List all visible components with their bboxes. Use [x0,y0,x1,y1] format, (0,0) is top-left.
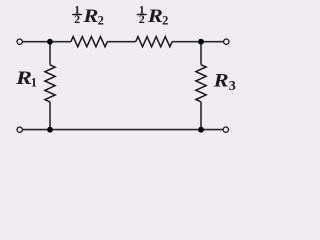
node dot bottom-right junction [198,127,204,133]
svg-text:2: 2 [98,13,104,27]
wire right shunt lower [200,102,202,130]
svg-text:2: 2 [162,13,168,27]
terminal bottom-right (open) [223,127,228,132]
svg-text:3: 3 [229,79,236,94]
svg-text:1: 1 [31,75,37,89]
svg-text:R: R [147,6,163,27]
resistor 1/2 R2 (right, series top) [136,37,172,47]
wire bottom rail [23,129,223,131]
label 1/2 R2 (right) : fraction one-half [137,3,169,28]
wire top rail middle segment [107,41,135,43]
terminal top-left (open) [17,39,22,44]
svg-text:2: 2 [74,12,80,26]
svg-text:R: R [15,68,32,89]
node dot bottom-left junction [47,127,53,133]
node dot top-right junction [198,39,204,45]
resistor R3 (right shunt) [196,65,206,102]
wire left shunt lower [49,102,51,130]
label R3 [213,70,236,94]
node dot top-left junction [47,39,53,45]
resistor 1/2 R2 (left, series top) [71,37,107,47]
svg-text:R: R [213,70,229,91]
svg-text:2: 2 [139,12,145,26]
svg-text:R: R [82,6,98,27]
terminal top-right (open) [224,39,229,44]
wire top rail right segment [172,41,223,43]
wire left shunt upper [49,42,51,65]
wire top rail left segment [23,41,71,43]
label 1/2 R2 (left) : fraction one-half [72,3,104,28]
resistor R1 (left shunt) [45,65,55,102]
terminal bottom-left (open) [17,127,22,132]
label R1 [15,68,37,90]
wire right shunt upper [200,42,202,65]
